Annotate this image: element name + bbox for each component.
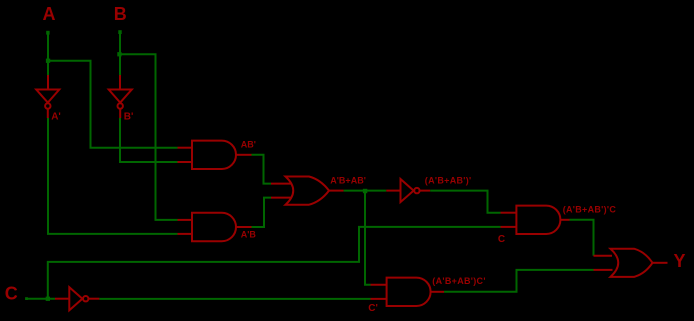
svg-text:(A'B+AB')'C: (A'B+AB')'C — [563, 204, 617, 214]
wire B inverter input stub — [119, 75, 121, 90]
svg-text:A'B: A'B — [241, 230, 257, 240]
wire C up and over to AND3 — [48, 227, 501, 299]
inverter C' input stub — [55, 298, 69, 300]
and-gate AND1 (AB') — [192, 141, 236, 169]
wire AND4 input1 stub — [371, 284, 387, 286]
wire A inverter input stub — [47, 75, 49, 90]
and-gate AND4 ((A'B+AB')C') — [387, 278, 431, 306]
wire A AND1 input stub — [178, 147, 194, 149]
svg-text:C: C — [5, 284, 18, 304]
terminal B — [118, 30, 121, 34]
svg-text:B: B — [114, 4, 127, 24]
svg-text:Y: Y — [674, 251, 686, 271]
svg-text:A'B+AB': A'B+AB' — [330, 175, 366, 185]
wire A vertical — [47, 33, 49, 75]
wire C terminal to junction — [27, 298, 55, 300]
wire OR2 input2 stub — [594, 269, 613, 271]
wire AND3 output stub — [560, 219, 569, 221]
inverter B' — [109, 90, 132, 119]
svg-text:A': A' — [51, 112, 61, 123]
inverter C' — [69, 287, 99, 310]
junction C — [46, 297, 50, 301]
wire B' to AND1 — [120, 118, 178, 162]
wire B branch to AND2 — [120, 54, 178, 220]
wire OR1 output stub — [329, 190, 344, 192]
wire inverter3 input stub — [386, 190, 400, 192]
wire OR2 output stub — [653, 262, 668, 264]
wire B' AND1 input stub — [178, 161, 194, 163]
wire C' to AND4 — [99, 298, 370, 300]
wire A'B to OR1 — [252, 198, 272, 227]
wire A branch to AND1 — [48, 61, 178, 148]
junction OR1 output — [363, 189, 367, 193]
svg-text:(A'B+AB')C': (A'B+AB')C' — [432, 276, 485, 286]
wire OR1 input1 stub — [271, 183, 292, 185]
wire AND4 output stub — [431, 291, 444, 293]
or-gate OR1 (A'B+AB') — [286, 177, 330, 205]
wire OR2 input1 stub — [594, 255, 613, 257]
svg-text:B': B' — [124, 112, 134, 123]
wire (A'B+AB')' to AND3 — [430, 191, 500, 213]
wire B AND2 input stub — [178, 219, 194, 221]
svg-text:AB': AB' — [241, 140, 256, 150]
wire AB' output stub — [236, 154, 252, 156]
terminal A — [46, 31, 49, 35]
wire AND4 to OR2 — [444, 270, 594, 292]
wire AND3 input2 stub (C) — [501, 226, 517, 228]
wire AND4 input2 stub — [371, 298, 387, 300]
wire B vertical — [119, 33, 121, 75]
junction B — [117, 52, 121, 56]
wire A' AND2 input stub — [178, 233, 194, 235]
inverter (A'B+AB')' — [401, 179, 431, 202]
svg-text:C': C' — [368, 303, 378, 314]
wire OR1 output — [344, 190, 387, 192]
and-gate AND2 (A'B) — [192, 213, 236, 241]
wire junction to AND4 input1 — [365, 191, 371, 285]
wire AND3 input1 stub — [501, 212, 517, 214]
inverter A' — [36, 90, 59, 119]
svg-text:(A'B+AB')': (A'B+AB')' — [425, 175, 472, 185]
wire AB' to OR1 — [252, 155, 272, 184]
wire A' to AND2 — [48, 118, 178, 234]
wire A'B output stub — [236, 226, 252, 228]
junction A — [46, 59, 50, 63]
svg-text:A: A — [43, 4, 56, 24]
wire OR1 input2 stub — [271, 197, 292, 199]
or-gate OR2 (Y) — [611, 249, 653, 277]
wire AND3 to OR2 — [570, 220, 594, 256]
svg-text:C: C — [498, 234, 505, 245]
and-gate AND3 ((A'B+AB')'C) — [516, 206, 560, 234]
terminal C — [25, 297, 28, 300]
